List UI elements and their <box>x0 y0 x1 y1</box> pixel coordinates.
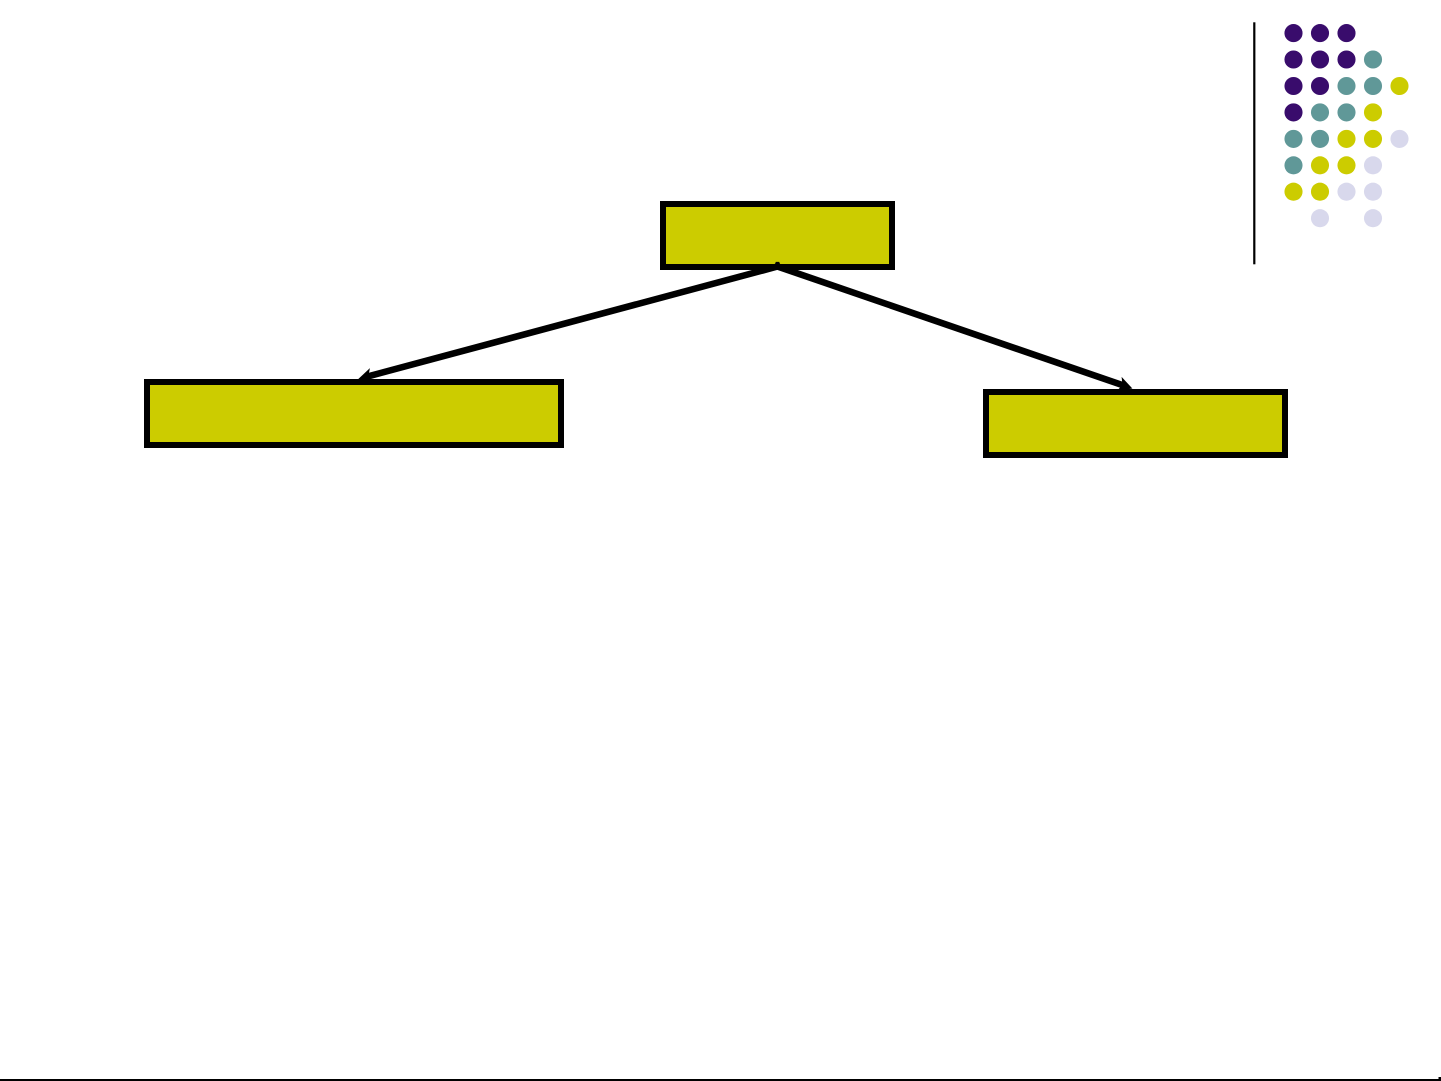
bottom border line <box>0 1077 1441 1081</box>
decorative dot row 2 <box>1284 50 1382 68</box>
top box (root node) <box>663 204 892 267</box>
arrowhead on left arrow <box>358 368 374 383</box>
decorative dot row 6 <box>1284 156 1382 174</box>
junction notch where arrows leave top box <box>775 262 781 265</box>
vertical rule (template decoration) <box>1253 22 1255 264</box>
wire: arrow from top box to left box <box>366 267 777 377</box>
arrowhead on right arrow <box>1117 377 1133 391</box>
decorative dot row 5 <box>1284 130 1408 148</box>
decorative dot row 3 <box>1284 77 1408 95</box>
decorative dot row 7 <box>1284 183 1382 201</box>
left box (child node) <box>147 382 561 445</box>
decorative dot row 1 <box>1284 24 1355 42</box>
wire: arrow to right box <box>778 267 1125 386</box>
right box (child node) <box>986 392 1285 455</box>
decorative dot row 8 <box>1311 209 1382 227</box>
decorative dot row 4 <box>1284 103 1382 121</box>
